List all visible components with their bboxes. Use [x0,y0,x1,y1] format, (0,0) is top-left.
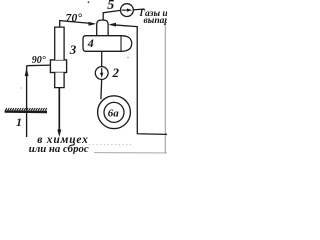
drum 4 tank [83,36,132,52]
svg-text:4: 4 [87,36,94,50]
scan speck mid [127,57,128,58]
fan 5 arrow inside [122,9,129,11]
svg-text:выпар: выпар [144,16,168,26]
arrowhead into head vessel right [109,23,117,27]
wire vessel top to fan [103,10,120,20]
scan speck top [88,1,90,3]
svg-text:70°: 70° [66,12,83,24]
heat-exchanger box on column 3 [50,60,66,73]
fan 5 circle [121,4,134,17]
valve 2 arrow inside [101,68,103,74]
svg-text:90°: 90° [32,55,46,66]
frame border bottom [94,152,167,154]
svg-text:или на сброс: или на сброс [29,143,89,154]
valve 2 circle [95,67,108,80]
svg-text:5: 5 [107,0,114,13]
wire valve 2 to tank 6a [100,79,103,99]
return wire right pipe [111,25,167,135]
column lower shell [55,73,64,88]
wire drum down to valve 2 [101,51,103,66]
svg-text:6а: 6а [108,108,120,120]
ground hatch [5,108,47,112]
wire fan to label [133,8,144,11]
deaerator head vessel [97,20,108,36]
arrowhead up on pipe 1 [25,68,29,77]
tank 6a outer circle [98,96,131,129]
scan dotted artifact line [89,144,133,146]
frame border right [164,25,166,153]
drum head seam [120,36,122,52]
wire 90deg horizontal [27,64,51,67]
wire riser pipe 1 vertical [26,66,28,137]
svg-text:3: 3 [69,42,77,57]
tank 6a inner circle [104,102,124,122]
arrowhead into head vessel left [89,22,97,26]
column 3 upper shell [55,27,64,60]
drain wire down [58,88,60,131]
svg-text:1: 1 [16,115,22,129]
svg-text:2: 2 [112,65,120,80]
arrowhead down drain [57,130,61,138]
wire 70deg stub from column top [60,21,94,28]
